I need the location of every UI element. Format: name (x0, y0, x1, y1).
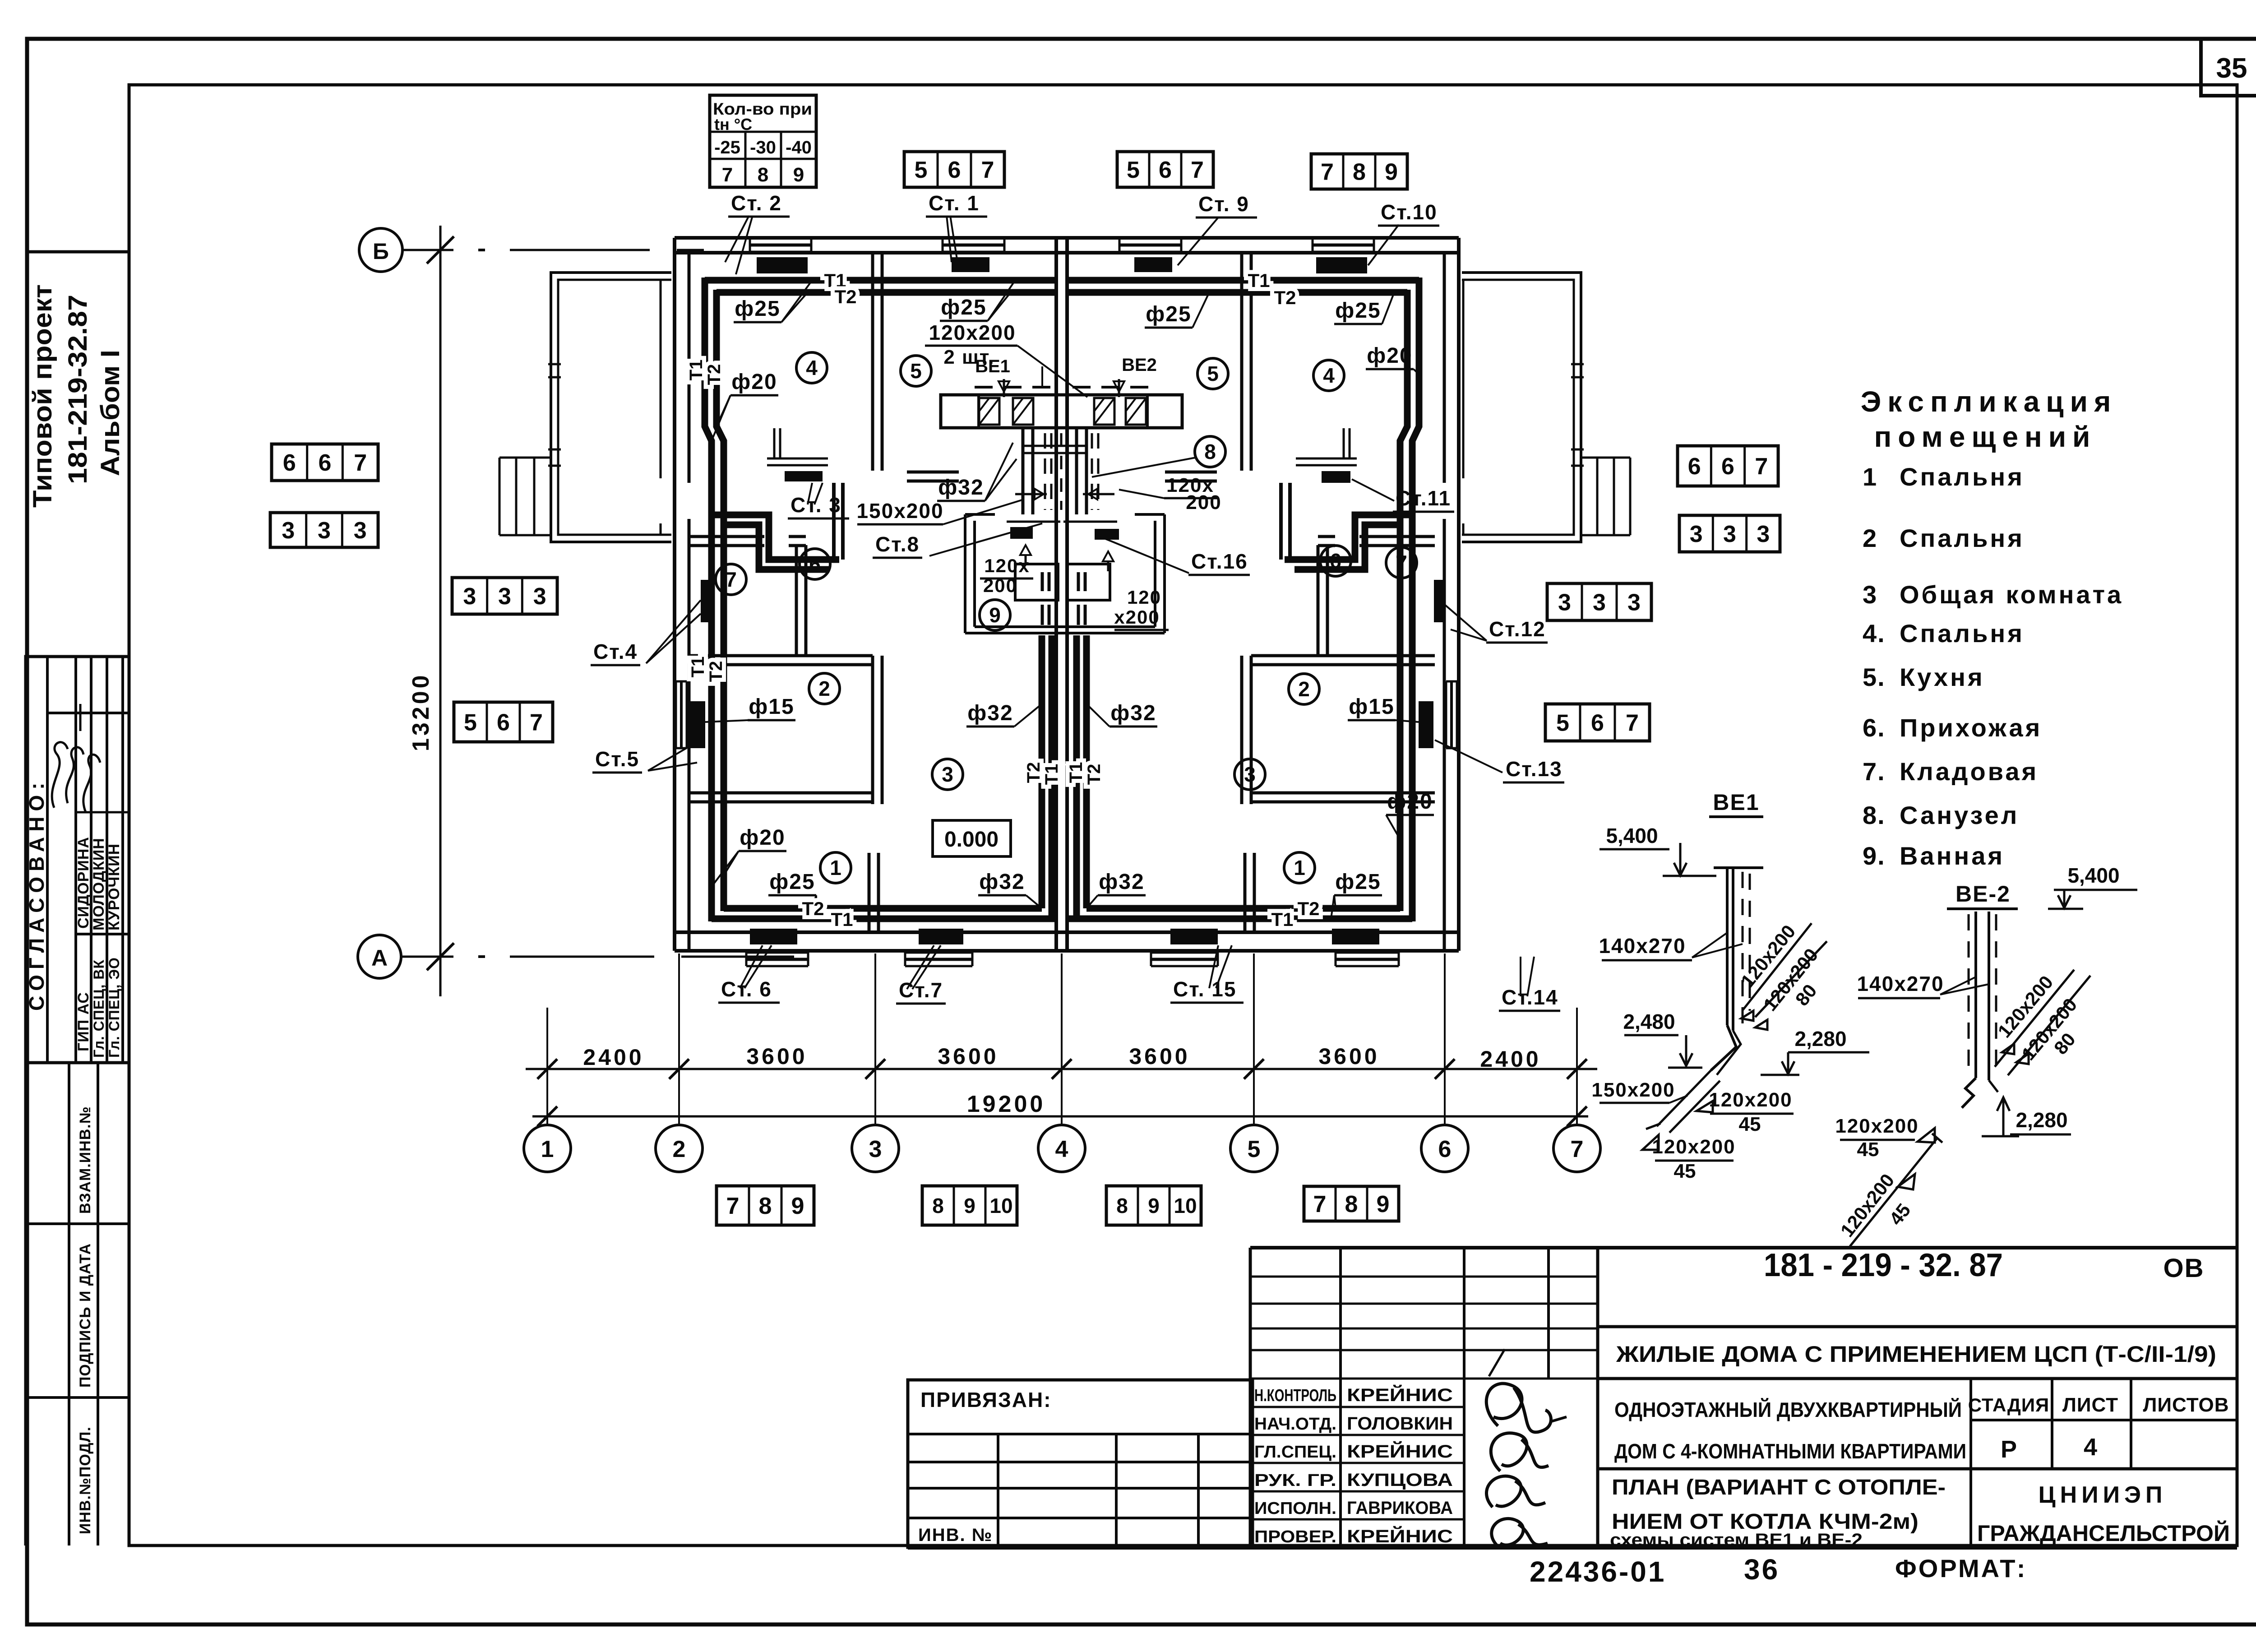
bottom extension lines (546, 1008, 548, 1126)
damper symbol right (1083, 493, 1114, 495)
svg-text:Спальня: Спальня (1900, 619, 2025, 648)
approval signatures (52, 742, 68, 808)
svg-text:9: 9 (1385, 159, 1398, 185)
svg-text:ВЕ-2: ВЕ-2 (1956, 881, 2011, 907)
pipe radiator connector right (1279, 483, 1283, 560)
svg-text:Ст.5: Ст.5 (595, 747, 639, 771)
pipe T2 bottom run left (724, 905, 1042, 912)
svg-text:Т1: Т1 (1248, 270, 1270, 291)
pipe T1 bottom run right (1067, 916, 1412, 922)
valve-number box 5 6 7 (top left) (904, 152, 1004, 187)
BE1 upper duct (1743, 923, 1812, 1010)
svg-text:45: 45 (1739, 1113, 1761, 1135)
svg-text:Типовой проект: Типовой проект (28, 284, 57, 508)
svg-text:tн °C: tн °C (714, 115, 752, 134)
partition room7/room2 right (1251, 654, 1435, 657)
BE1 lower duct (1657, 1070, 1711, 1126)
partition rooms2/3 right (1240, 656, 1244, 804)
svg-text:6: 6 (948, 157, 961, 183)
svg-text:4: 4 (1055, 1136, 1068, 1162)
room circle 7 left (716, 564, 746, 595)
svg-text:5,400: 5,400 (2067, 864, 2119, 887)
svg-text:3: 3 (1723, 521, 1736, 547)
svg-text:8: 8 (759, 1193, 772, 1219)
bathroom shelf lines (1007, 521, 1060, 523)
svg-text:ф32: ф32 (1099, 870, 1144, 894)
svg-text:5: 5 (464, 710, 477, 736)
svg-text:Т2: Т2 (834, 286, 856, 307)
svg-text:3600: 3600 (1129, 1044, 1190, 1069)
window bottom wall 1 (746, 952, 808, 954)
svg-text:6.: 6. (1863, 713, 1886, 742)
svg-text:4: 4 (806, 356, 818, 379)
svg-text:Ст. 9: Ст. 9 (1198, 192, 1249, 216)
left stairs (499, 457, 551, 459)
flue square 1 (979, 398, 999, 425)
partition room2/1 right (1251, 791, 1435, 795)
kitchen stove wall left (907, 471, 959, 474)
flue cross lines (1023, 445, 1086, 447)
svg-text:Т1: Т1 (688, 657, 708, 678)
svg-text:3: 3 (1757, 521, 1770, 547)
svg-text:2,280: 2,280 (1794, 1027, 1846, 1050)
svg-text:Санузел: Санузел (1900, 801, 2019, 829)
svg-text:7: 7 (1755, 453, 1768, 480)
axis circles bottom (524, 1125, 571, 1172)
svg-text:7: 7 (726, 1193, 740, 1219)
svg-text:Б: Б (373, 239, 389, 264)
privyazan grid (908, 1433, 1253, 1435)
vent duct dashes top (975, 386, 1051, 389)
radiator bottom window2 (Ст.7) (919, 929, 963, 944)
flue walls below stove (1022, 428, 1025, 514)
stamp narrow table rows (1250, 1276, 1464, 1278)
svg-text:8: 8 (932, 1194, 944, 1217)
window top wall 4 (1313, 237, 1374, 240)
partition room7/room2 left (689, 654, 873, 657)
svg-text:Ванная: Ванная (1900, 842, 2005, 870)
bath fixture right (1067, 564, 1110, 600)
svg-text:ф25: ф25 (769, 870, 815, 894)
svg-text:ф32: ф32 (967, 701, 1013, 725)
pipe right riser T1 (1412, 278, 1419, 921)
room circle 3 right (1234, 759, 1265, 790)
radiator bottom window3 (Ст.15) (1170, 929, 1218, 944)
stamp signatures (1486, 1384, 1551, 1432)
flue square 2 (1013, 398, 1033, 425)
bathroom bottom wall (965, 632, 1165, 634)
valve-number box 6 6 7 (left) (272, 444, 378, 481)
svg-text:5.: 5. (1863, 663, 1886, 691)
window right wall (1445, 681, 1447, 748)
svg-text:Ст.8: Ст.8 (875, 532, 920, 556)
svg-text:4: 4 (1323, 364, 1335, 387)
valve-number box 5 6 7 (top mid) (1117, 152, 1213, 187)
svg-text:2400: 2400 (1480, 1046, 1541, 1072)
svg-text:ИНВ.№ПОДЛ.: ИНВ.№ПОДЛ. (77, 1426, 94, 1534)
room circle 5 right (1197, 358, 1228, 389)
svg-text:х200: х200 (1114, 606, 1160, 628)
room circle 6 left (800, 549, 830, 579)
svg-text:7: 7 (1571, 1136, 1584, 1162)
svg-text:ВЕ2: ВЕ2 (1122, 355, 1157, 375)
svg-text:3: 3 (1593, 590, 1606, 616)
svg-text:Р: Р (2001, 1436, 2017, 1463)
bath fixture left (1015, 564, 1058, 600)
pipe radiator connector left (832, 483, 836, 560)
valve-number box 8 9 10 (bottom 2) (922, 1186, 1017, 1225)
svg-text:ф15: ф15 (1349, 695, 1394, 719)
svg-text:Т2: Т2 (802, 898, 824, 919)
pipe T1 top run right flat (1067, 277, 1419, 284)
radiator room4 (Ст.3) (785, 471, 823, 481)
svg-text:7: 7 (354, 450, 367, 476)
svg-text:0.000: 0.000 (944, 828, 999, 851)
radiator top window1 (Ст.2) (757, 257, 808, 273)
svg-text:МОЛОДКИН: МОЛОДКИН (90, 838, 107, 930)
window bottom wall 3 (1151, 952, 1218, 954)
svg-text:3: 3 (463, 583, 476, 610)
pipe branch room4 right (1285, 515, 1412, 560)
room circle 9 (980, 600, 1010, 630)
left veranda inner line (660, 280, 662, 478)
svg-text:ВЗАМ.ИНВ.№: ВЗАМ.ИНВ.№ (77, 1106, 94, 1214)
partition rooms2/3 left (871, 656, 874, 804)
valve-number box 3 3 3 (right) (1679, 515, 1780, 552)
svg-text:-30: -30 (750, 138, 776, 157)
room circle 4 right (1313, 360, 1344, 391)
svg-text:СОГЛАСОВАНО:: СОГЛАСОВАНО: (25, 777, 48, 1011)
svg-text:1: 1 (1863, 463, 1877, 491)
svg-text:5: 5 (1127, 157, 1140, 183)
svg-text:6: 6 (1330, 549, 1341, 573)
svg-text:6: 6 (1591, 710, 1604, 736)
stove block outline (941, 395, 1182, 428)
svg-text:150x200: 150x200 (856, 499, 943, 523)
svg-text:3: 3 (1558, 590, 1571, 616)
room circle 5 left (901, 356, 931, 386)
svg-text:Кладовая: Кладовая (1900, 757, 2039, 786)
svg-text:8.: 8. (1863, 801, 1886, 829)
svg-text:А: А (371, 945, 388, 971)
partition room4/hall left (689, 535, 764, 538)
svg-text:Ст.11: Ст.11 (1396, 486, 1451, 510)
svg-text:10: 10 (989, 1194, 1012, 1217)
svg-text:5: 5 (1248, 1136, 1261, 1162)
svg-text:120х: 120х (984, 555, 1030, 576)
fixture ticks (1041, 572, 1044, 591)
svg-text:Экспликация: Экспликация (1861, 385, 2117, 418)
room circle 6 right (1320, 546, 1351, 576)
svg-text:ОВ: ОВ (2164, 1254, 2205, 1283)
axis A circle (358, 935, 401, 978)
svg-text:Т1: Т1 (1271, 909, 1293, 930)
partition room1/3 left (868, 853, 871, 932)
svg-text:45: 45 (1857, 1138, 1879, 1161)
pipe T2 top run right flat (1067, 289, 1407, 296)
svg-text:3: 3 (1627, 590, 1641, 616)
svg-text:Прихожая: Прихожая (1900, 713, 2042, 742)
svg-text:Альбом I: Альбом I (96, 350, 125, 476)
svg-text:-40: -40 (786, 138, 812, 157)
svg-text:ГАВРИКОВА: ГАВРИКОВА (1347, 1498, 1453, 1518)
svg-text:ЛИСТ: ЛИСТ (2062, 1394, 2118, 1416)
radiator bottom window4 (Ст.14) (1332, 929, 1379, 944)
svg-text:РУК. ГР.: РУК. ГР. (1254, 1471, 1336, 1490)
svg-text:6: 6 (1159, 157, 1172, 183)
svg-text:3: 3 (1244, 763, 1256, 786)
svg-text:Ст. 2: Ст. 2 (731, 191, 782, 215)
radiator right wall (Ст.13) (1419, 701, 1433, 748)
svg-text:ф20: ф20 (1367, 344, 1412, 368)
svg-text:КУПЦОВА: КУПЦОВА (1347, 1470, 1453, 1490)
radiator bottom window1 (Ст.6) (750, 929, 797, 944)
radiator storeroom left (Ст.4) (701, 580, 711, 622)
pipe T2 bottom run right (1086, 905, 1400, 912)
top exterior wall (675, 236, 1459, 240)
svg-text:Т1: Т1 (831, 909, 853, 930)
svg-text:Ст.7: Ст.7 (899, 978, 943, 1002)
svg-text:8: 8 (758, 164, 768, 186)
svg-text:9.: 9. (1863, 842, 1886, 870)
BE2 upper duct (1995, 970, 2074, 1067)
svg-text:3600: 3600 (746, 1044, 807, 1069)
room circle 1 left (820, 852, 851, 883)
svg-text:6: 6 (1721, 453, 1734, 480)
svg-text:7: 7 (1321, 159, 1334, 185)
svg-text:6: 6 (1688, 453, 1701, 480)
svg-text:13200: 13200 (408, 672, 434, 751)
svg-text:7: 7 (725, 568, 737, 591)
svg-text:3: 3 (1690, 521, 1703, 547)
svg-text:Ст.10: Ст.10 (1381, 200, 1438, 224)
sidebar approval table frame (26, 657, 129, 1063)
privyazan box (908, 1380, 1253, 1547)
svg-text:150х200: 150х200 (1591, 1079, 1675, 1101)
partition rooms 5/4 right (1240, 253, 1244, 471)
pipe T1 top run left flat (705, 277, 1056, 284)
svg-text:5,400: 5,400 (1606, 824, 1658, 847)
window top wall 1 (750, 237, 811, 240)
svg-text:Н.КОНТРОЛЬ: Н.КОНТРОЛЬ (1254, 1386, 1336, 1405)
title bottom line (908, 1546, 2237, 1550)
svg-text:6: 6 (497, 710, 510, 736)
svg-text:Гл. СПЕЦ, ВК: Гл. СПЕЦ, ВК (91, 959, 107, 1058)
page number box (2201, 39, 2256, 96)
svg-text:3: 3 (282, 518, 295, 544)
svg-text:4: 4 (2084, 1434, 2097, 1461)
svg-text:ф32: ф32 (1110, 701, 1156, 725)
radiator storeroom right (Ст.12) (1434, 580, 1443, 622)
svg-text:2,280: 2,280 (2016, 1108, 2067, 1132)
right veranda inner line (1462, 280, 1465, 478)
svg-text:2: 2 (1298, 677, 1310, 701)
svg-text:Ст. 1: Ст. 1 (929, 191, 980, 215)
room circle 4 left (796, 352, 827, 383)
svg-text:9: 9 (1377, 1191, 1390, 1217)
svg-text:помещений: помещений (1874, 421, 2097, 453)
svg-text:4.: 4. (1863, 619, 1886, 648)
svg-text:Ст. 3: Ст. 3 (791, 493, 841, 517)
bathroom left wall (964, 514, 966, 633)
partition room4/hall right (1359, 535, 1435, 538)
svg-text:2,480: 2,480 (1623, 1010, 1675, 1033)
svg-text:КРЕЙНИС: КРЕЙНИС (1347, 1384, 1453, 1405)
room circle 1 right (1284, 852, 1315, 883)
pipe central risers right pair (1073, 635, 1080, 919)
left veranda (551, 273, 671, 542)
valve-number box 6 6 7 (right) (1678, 446, 1778, 486)
partition rooms 4/5 left (871, 253, 874, 471)
level mark 0.000 (933, 820, 1011, 856)
room circle 8 (1195, 436, 1225, 467)
svg-text:3: 3 (1863, 580, 1877, 609)
partition room1/3 right (1244, 853, 1247, 932)
central party wall (1054, 238, 1058, 951)
radiator top window2 (Ст.1) (952, 257, 989, 272)
partition storeroom right (1317, 545, 1320, 656)
svg-text:7: 7 (1396, 551, 1407, 574)
svg-text:8: 8 (1204, 440, 1216, 463)
svg-text:200: 200 (1186, 491, 1221, 514)
right exterior wall (1457, 238, 1461, 951)
svg-text:Т1: Т1 (1066, 762, 1086, 783)
svg-text:НАЧ.ОТД.: НАЧ.ОТД. (1254, 1415, 1336, 1434)
svg-text:2400: 2400 (583, 1045, 644, 1070)
radiator top window3 (Ст.9) (1134, 257, 1172, 272)
svg-text:ЦНИИЭП: ЦНИИЭП (2039, 1482, 2167, 1508)
right stairs (1581, 457, 1630, 459)
sidebar stamp dividers (68, 1063, 70, 1546)
svg-text:Ст.13: Ст.13 (1506, 757, 1563, 781)
svg-text:ГОЛОВКИН: ГОЛОВКИН (1347, 1414, 1453, 1434)
valve-number box 3 3 3 (left) (270, 513, 378, 547)
left exterior wall (673, 238, 676, 951)
svg-text:КРЕЙНИС: КРЕЙНИС (1347, 1441, 1453, 1462)
svg-text:181-219-32.87: 181-219-32.87 (63, 295, 92, 484)
svg-text:Т2: Т2 (1084, 764, 1104, 785)
svg-text:9: 9 (964, 1194, 975, 1217)
flue square 4 (1126, 398, 1146, 425)
BE1 stack (1714, 866, 1763, 869)
svg-text:Ст.14: Ст.14 (1502, 986, 1558, 1009)
svg-text:45: 45 (1674, 1160, 1696, 1182)
svg-text:3: 3 (354, 518, 367, 544)
window top wall 3 (1119, 237, 1181, 240)
dimension ticks row1 (537, 1059, 557, 1079)
svg-text:140х270: 140х270 (1857, 972, 1944, 995)
svg-text:Т2: Т2 (1024, 762, 1044, 783)
svg-text:2: 2 (673, 1136, 686, 1162)
window top wall 2 (943, 237, 1004, 240)
dimension line row2 (532, 1115, 1588, 1118)
radiator room4 right (Ст.11) (1322, 471, 1350, 483)
svg-text:Ст.16: Ст.16 (1191, 550, 1248, 573)
valve-number box 7 8 9 (bottom 4) (1304, 1186, 1399, 1221)
svg-text:Ст. 6: Ст. 6 (721, 977, 772, 1001)
BE2 stack (1974, 912, 1977, 1078)
flow arrow right (1103, 551, 1114, 561)
svg-text:10: 10 (1174, 1194, 1197, 1217)
BE2 lower duct (1850, 1139, 1937, 1246)
svg-text:СИДОРИНА: СИДОРИНА (75, 837, 92, 929)
svg-text:Т2: Т2 (706, 661, 726, 682)
svg-text:3: 3 (533, 583, 546, 610)
svg-text:ИСПОЛН.: ИСПОЛН. (1254, 1499, 1336, 1518)
svg-text:ф20: ф20 (1387, 790, 1433, 814)
svg-text:7.: 7. (1863, 757, 1886, 786)
svg-text:120x200: 120x200 (929, 321, 1016, 344)
svg-text:6: 6 (809, 552, 821, 576)
pipe T2 top run left flat (717, 289, 1056, 296)
valve-number box 3 3 3 (left inner) (452, 578, 557, 614)
title block top line (1250, 1246, 2237, 1249)
pipe right riser T2 (1400, 290, 1407, 911)
svg-text:6: 6 (283, 450, 296, 476)
svg-text:3: 3 (498, 583, 511, 610)
window left wall (675, 681, 677, 748)
svg-text:5: 5 (1556, 710, 1569, 736)
svg-text:ДОМ С 4-КОМНАТНЫМИ КВАРТИРАМИ: ДОМ С 4-КОМНАТНЫМИ КВАРТИРАМИ (1614, 1439, 1966, 1463)
svg-text:ГИП АС: ГИП АС (75, 992, 92, 1051)
svg-text:ф20: ф20 (731, 370, 777, 394)
flue square 3 (1094, 398, 1114, 425)
valve-number box 7 8 9 (top right) (1311, 154, 1407, 189)
svg-text:2: 2 (818, 677, 830, 700)
svg-text:7: 7 (1191, 157, 1204, 183)
svg-text:Спальня: Спальня (1900, 463, 2025, 491)
svg-text:3: 3 (318, 518, 331, 544)
svg-text:120х200: 120х200 (1835, 1115, 1919, 1137)
svg-text:Т2: Т2 (1297, 898, 1319, 919)
svg-text:ФОРМАТ:: ФОРМАТ: (1895, 1554, 2027, 1583)
svg-text:ф20: ф20 (740, 826, 785, 850)
svg-text:ф25: ф25 (1335, 870, 1381, 894)
svg-text:ПРОВЕР.: ПРОВЕР. (1254, 1527, 1336, 1546)
damper symbol left (1015, 493, 1047, 495)
svg-text:8: 8 (1116, 1194, 1128, 1217)
partition storeroom left (795, 545, 798, 656)
svg-text:ф32: ф32 (979, 870, 1025, 894)
svg-text:ЛИСТОВ: ЛИСТОВ (2143, 1394, 2229, 1416)
svg-text:Спальня: Спальня (1900, 524, 2025, 552)
svg-text:5: 5 (910, 359, 922, 383)
svg-text:ф25: ф25 (735, 297, 780, 321)
stamp narrow table verticals (1249, 1248, 1252, 1548)
svg-text:7: 7 (722, 164, 733, 186)
svg-text:Кухня: Кухня (1900, 663, 1985, 691)
flue dashed channels (1044, 433, 1046, 510)
svg-text:120х200: 120х200 (1709, 1089, 1792, 1111)
svg-text:ПРИВЯЗАН:: ПРИВЯЗАН: (920, 1388, 1052, 1411)
radiator top window4 (Ст.10) (1316, 257, 1367, 273)
svg-text:7: 7 (1313, 1191, 1327, 1217)
svg-text:Т1: Т1 (1042, 764, 1062, 785)
radiator bathroom left (Ст.8) (1010, 527, 1033, 539)
svg-text:СТАДИЯ: СТАДИЯ (1968, 1394, 2049, 1416)
svg-text:9: 9 (793, 164, 804, 186)
svg-text:7: 7 (981, 157, 994, 183)
svg-text:1: 1 (1294, 856, 1305, 879)
temperature table grid (710, 131, 816, 133)
axis B line (402, 249, 453, 251)
axis B circle (359, 228, 402, 272)
pipe branch room4 left (712, 515, 839, 560)
svg-text:22436-01: 22436-01 (1530, 1555, 1666, 1588)
window bottom wall 4 (1336, 952, 1399, 954)
svg-text:Т2: Т2 (1274, 287, 1296, 308)
svg-text:7: 7 (530, 710, 543, 736)
